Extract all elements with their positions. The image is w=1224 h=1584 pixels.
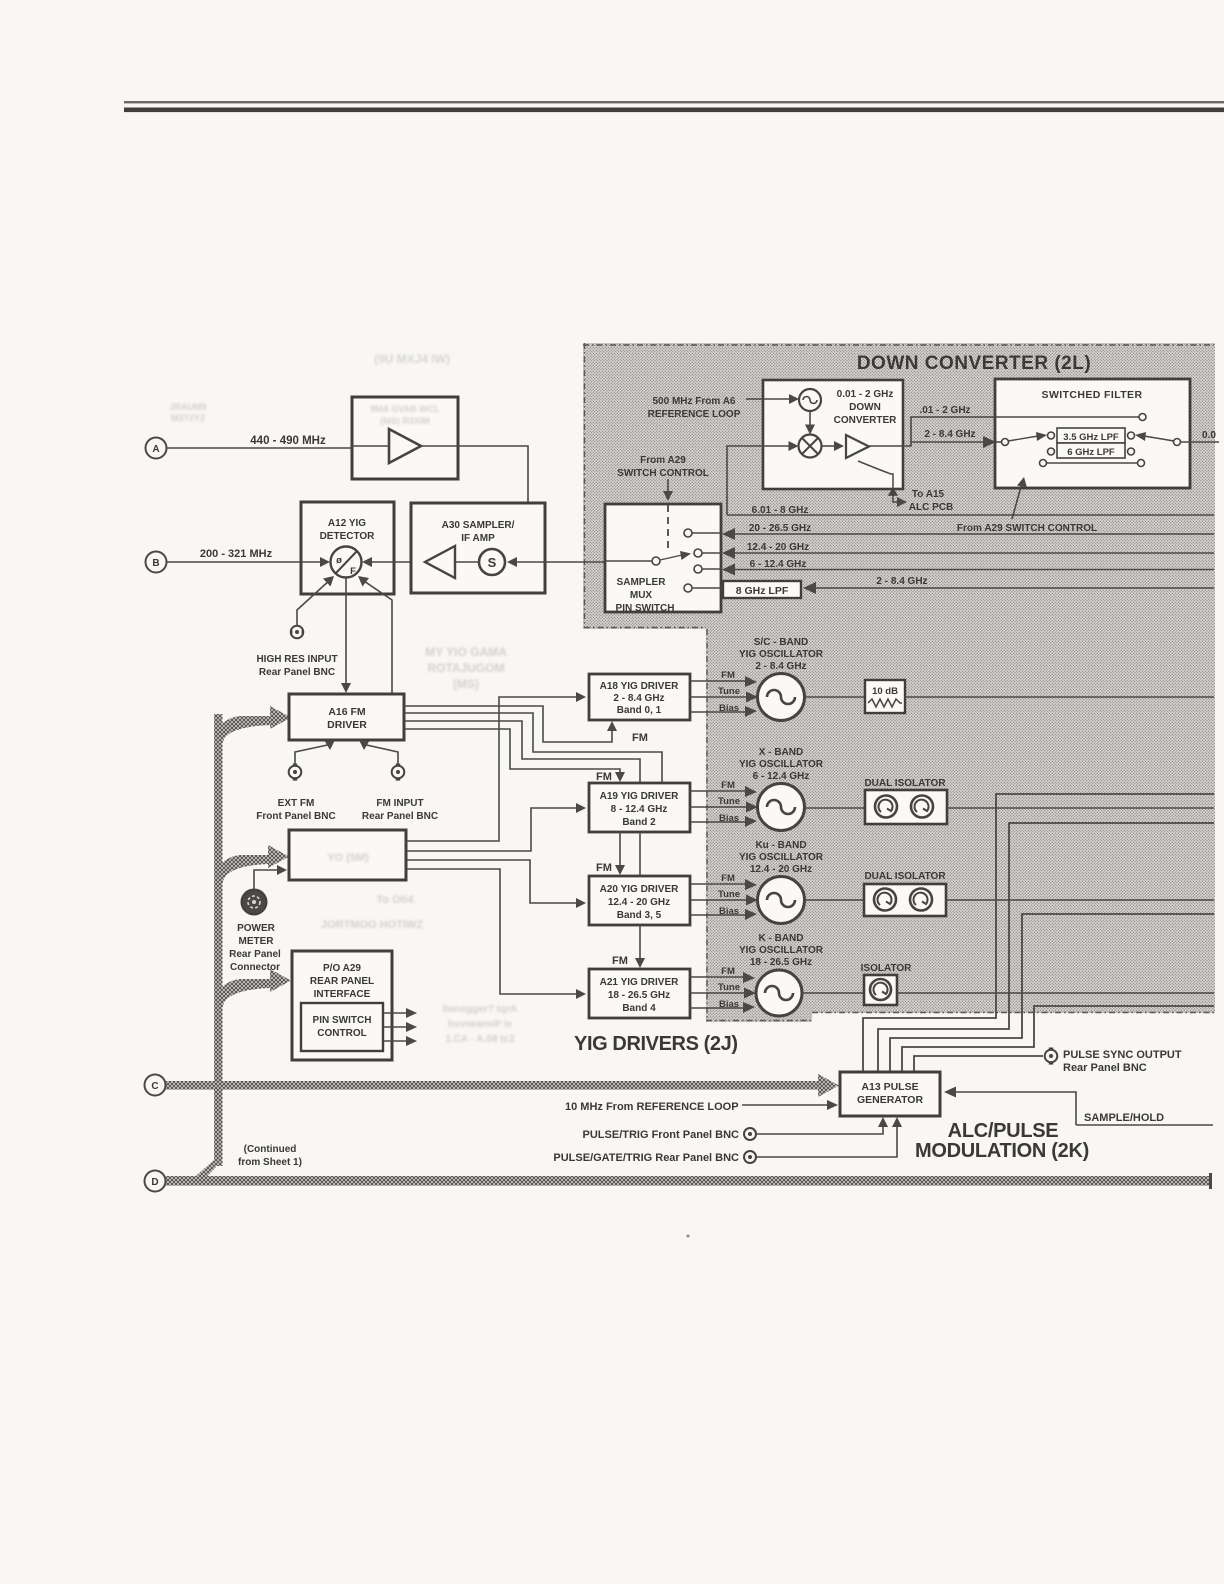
wire oscillator to dual isolator Ku: [805, 899, 865, 901]
svg-text:A13 PULSE: A13 PULSE: [861, 1081, 918, 1093]
svg-text:MUX: MUX: [630, 590, 653, 601]
svg-text:YIG OSCILLATOR: YIG OSCILLATOR: [739, 649, 824, 660]
svg-text:P/O A29: P/O A29: [323, 963, 361, 974]
svg-text:DUAL ISOLATOR: DUAL ISOLATOR: [864, 871, 946, 882]
chain wire A20 to A21 FM with arrowhead: [639, 925, 641, 962]
svg-text:ROTAJUGOM: ROTAJUGOM: [427, 661, 504, 675]
YO driver interface box (ghost label): [289, 830, 406, 880]
svg-text:PULSE SYNC OUTPUT: PULSE SYNC OUTPUT: [1063, 1049, 1182, 1061]
vertical hatched bus band: [214, 714, 223, 1166]
A20 Tune wire to oscillator: [690, 889, 758, 906]
node B terminal circle: [146, 552, 167, 573]
svg-text:POWER: POWER: [237, 923, 276, 934]
top rule thick: [124, 108, 1224, 113]
wire oscillator to mixer: [809, 411, 811, 429]
wire FM-driver feedback to phase det: [361, 579, 392, 694]
svg-text:FM: FM: [721, 873, 735, 884]
wire oscillator to dual isolator: [805, 807, 866, 809]
svg-text:FM: FM: [596, 771, 612, 783]
pulse wire 4 from A13: [902, 1006, 1214, 1072]
svg-text:PULSE/GATE/TRIG Rear Panel BNC: PULSE/GATE/TRIG Rear Panel BNC: [553, 1152, 739, 1164]
svg-text:DRIVER: DRIVER: [327, 719, 367, 731]
wire FM INPUT into driver: [362, 744, 398, 765]
svg-text:Rear Panel: Rear Panel: [229, 949, 281, 960]
A18 Bias wire to oscillator: [690, 703, 757, 717]
row D end tick: [1209, 1173, 1212, 1189]
dual isolator box Ku band: [864, 884, 946, 916]
wire into amplifier: [352, 445, 389, 447]
svg-text:PIN SWITCH: PIN SWITCH: [313, 1015, 372, 1026]
svg-text:FM: FM: [612, 955, 628, 967]
isolator box K band: [864, 975, 897, 1005]
svg-text:PULSE/TRIG Front Panel BNC: PULSE/TRIG Front Panel BNC: [583, 1129, 740, 1141]
svg-text:From A29 SWITCH CONTROL: From A29 SWITCH CONTROL: [957, 523, 1097, 534]
wire stub into input contact: [995, 441, 1001, 443]
svg-text:JRAUM9: JRAUM9: [169, 402, 206, 412]
svg-text:200 - 321 MHz: 200 - 321 MHz: [200, 548, 273, 560]
wire S/C band output to sheet edge: [905, 696, 1214, 698]
wire 6.01 - 8 GHz: [727, 514, 1214, 516]
svg-text:Bias: Bias: [719, 906, 739, 917]
svg-text:A16 FM: A16 FM: [328, 706, 366, 718]
svg-text:MODULATION (2K): MODULATION (2K): [915, 1140, 1089, 1162]
wire Ku band output to sheet edge: [946, 899, 1214, 901]
top rule thin: [124, 101, 1224, 103]
svg-text:18 - 26.5 GHz: 18 - 26.5 GHz: [750, 957, 812, 968]
svg-text:MY YIO GAMA: MY YIO GAMA: [425, 645, 507, 659]
wire from sampler mux into S with arrowhead: [513, 561, 545, 563]
svg-text:(Continued: (Continued: [244, 1144, 297, 1155]
arrowhead up into phase det left: [323, 576, 334, 587]
input switch arm: [1008, 436, 1038, 441]
sample/hold wire horizontal: [1076, 1124, 1213, 1126]
wire row B 200-321 MHz: [167, 561, 302, 563]
8 GHz LPF box: [723, 581, 801, 598]
svg-text:DOWN CONVERTER (2L): DOWN CONVERTER (2L): [857, 353, 1091, 374]
svg-text:FM: FM: [721, 966, 735, 977]
svg-text:JORTMOO HOTIWZ: JORTMOO HOTIWZ: [321, 919, 423, 931]
FM INPUT BNC connector: [392, 764, 405, 781]
chain wire A19 to A20 FM with arrowhead: [619, 832, 621, 869]
svg-text:Tune: Tune: [718, 686, 740, 697]
A20 FM wire to oscillator: [690, 873, 757, 890]
svg-text:bensgger? tqrA: bensgger? tqrA: [443, 1004, 517, 1015]
svg-text:FM: FM: [721, 670, 735, 681]
A21 YIG driver box: [589, 969, 690, 1018]
wire 6 - 12.4 GHz with arrowhead into mux: [734, 569, 1214, 571]
svg-text:METER: METER: [239, 936, 275, 947]
A20 Bias wire to oscillator: [690, 906, 757, 920]
svg-text:SWITCH CONTROL: SWITCH CONTROL: [617, 468, 709, 479]
svg-text:Bias: Bias: [719, 999, 739, 1010]
arrow from A29 control into switched filter: [1012, 483, 1022, 519]
output switch arm: [1144, 436, 1174, 441]
6 GHz LPF box: [1057, 443, 1125, 458]
switched filter input contact: [1002, 439, 1009, 446]
wire X band output to sheet edge: [947, 807, 1214, 809]
svg-text:SAMPLE/HOLD: SAMPLE/HOLD: [1084, 1112, 1164, 1124]
hatched bus row D: [163, 1176, 1210, 1186]
svg-text:from Sheet 1): from Sheet 1): [238, 1157, 302, 1168]
node D terminal circle: [145, 1171, 166, 1192]
svg-text:2 - 8.4 GHz: 2 - 8.4 GHz: [924, 429, 975, 440]
svg-text:CONTROL: CONTROL: [317, 1028, 366, 1039]
dash-dot border of shaded regions: [583, 343, 1214, 1021]
wire S to IF amp: [455, 561, 479, 563]
mux contact 6-12.4: [694, 565, 702, 573]
sample/hold wire into A13 with arrowhead: [955, 1092, 1076, 1125]
svg-text:EXT FM: EXT FM: [278, 798, 315, 809]
svg-text:hsvneanoP ie: hsvneanoP ie: [448, 1019, 513, 1030]
to A15 ALC PCB branch with detector diode: [858, 461, 893, 497]
contact .01-2 GHz path: [1140, 414, 1147, 421]
svg-text:FM: FM: [632, 732, 648, 744]
svg-text:2 - 8.4 GHz: 2 - 8.4 GHz: [755, 661, 806, 672]
LPF side contacts: [1048, 448, 1055, 455]
svg-text:To A15: To A15: [912, 489, 945, 500]
wire .01-2 GHz bypass across switched filter: [995, 416, 1139, 418]
10 dB attenuator: [865, 680, 905, 713]
hatched bus arrow into YO driver interface box: [214, 845, 289, 884]
wire FM driver out L1 to A18 FM: [404, 706, 612, 742]
svg-text:YIG OSCILLATOR: YIG OSCILLATOR: [739, 759, 824, 770]
svg-text:YO (5M): YO (5M): [327, 852, 369, 864]
hatched bus arrow into P/O A29 box: [214, 969, 291, 1008]
svg-text:12.4 - 20 GHz: 12.4 - 20 GHz: [750, 864, 812, 875]
svg-text:A18 YIG DRIVER: A18 YIG DRIVER: [600, 681, 680, 692]
svg-text:(9U MXJ4 IW): (9U MXJ4 IW): [374, 352, 450, 366]
wire pulse/gate/trig into A13 bottom: [756, 1123, 897, 1157]
svg-text:0.0: 0.0: [1202, 430, 1216, 441]
svg-text:6 GHz LPF: 6 GHz LPF: [1067, 447, 1115, 458]
svg-text:PIN SWITCH: PIN SWITCH: [616, 603, 675, 614]
pin switch control output arrows: [383, 1008, 417, 1018]
svg-text:ALC PCB: ALC PCB: [909, 502, 953, 513]
svg-text:Tune: Tune: [718, 889, 740, 900]
svg-text:YIG OSCILLATOR: YIG OSCILLATOR: [739, 945, 824, 956]
wire amp output to sampler: [421, 446, 528, 545]
S/C band YIG oscillator circle: [758, 674, 805, 721]
svg-text:Band 4: Band 4: [622, 1003, 656, 1014]
A18 FM wire to oscillator: [690, 670, 757, 687]
svg-text:12.4 - 20 GHz: 12.4 - 20 GHz: [608, 897, 670, 908]
EXT FM BNC connector: [289, 764, 302, 781]
svg-text:Rear Panel BNC: Rear Panel BNC: [1063, 1062, 1147, 1074]
wire FM driver out L2 to A19 top: [404, 713, 662, 783]
wire 10 MHz into A13: [742, 1104, 830, 1106]
wire from A30 amp into phase det with arrowhead: [370, 561, 424, 563]
svg-text:M3T2Y2: M3T2Y2: [171, 413, 205, 423]
sampler mux pin switch box: [605, 504, 721, 612]
svg-text:A: A: [152, 444, 159, 455]
arrowhead down into A16 FM driver: [341, 683, 351, 693]
svg-text:Bias: Bias: [719, 813, 739, 824]
svg-text:HIGH RES INPUT: HIGH RES INPUT: [256, 654, 337, 665]
0.01-2 GHz down converter box: [763, 380, 903, 489]
wire FM driver out L4 to A19 FM with arrowhead: [404, 729, 620, 776]
switched filter output wire: [1181, 441, 1220, 443]
wire FM driver out L3 to A19 top: [404, 721, 640, 783]
mux contact 8 GHz: [684, 584, 692, 592]
svg-text:(MS): (MS): [453, 677, 479, 691]
svg-text:YIG DRIVERS (2J): YIG DRIVERS (2J): [574, 1033, 738, 1055]
svg-text:440 - 490 MHz: 440 - 490 MHz: [250, 435, 326, 447]
A12 YIG detector box: [301, 502, 394, 594]
Ku band YIG oscillator circle: [758, 877, 805, 924]
wire 2 - 8.4 GHz into 8 GHz LPF: [815, 587, 1214, 589]
svg-text:0.01 - 2 GHz: 0.01 - 2 GHz: [837, 389, 894, 400]
wire pulse/trig into A13 bottom: [756, 1123, 883, 1134]
A21 Bias wire to oscillator: [690, 999, 755, 1013]
A20 YIG driver box: [589, 876, 690, 925]
svg-text:To Oti4: To Oti4: [376, 894, 414, 906]
svg-text:Band 3, 5: Band 3, 5: [617, 910, 662, 921]
svg-text:9MA GVAB WCL: 9MA GVAB WCL: [370, 404, 440, 414]
A13 pulse generator box: [840, 1072, 940, 1116]
svg-text:A21 YIG DRIVER: A21 YIG DRIVER: [600, 977, 680, 988]
phase/frequency detector circle in A12: [331, 547, 362, 578]
svg-text:Rear Panel BNC: Rear Panel BNC: [362, 811, 438, 822]
svg-text:DETECTOR: DETECTOR: [320, 531, 376, 542]
arrowhead into sampler S: [503, 539, 513, 550]
switched filter box: [995, 379, 1190, 488]
wire oscillator to isolator K: [802, 992, 864, 994]
svg-text:DOWN: DOWN: [849, 402, 881, 413]
shaded region: DOWN CONVERTER (2L) + YIG oscillator area: [583, 343, 1215, 1022]
pin switch control inner box: [301, 1003, 383, 1051]
svg-text:REFERENCE LOOP: REFERENCE LOOP: [648, 409, 741, 420]
wire 12.4 - 20 GHz with arrowhead into mux: [734, 552, 1214, 554]
svg-text:B: B: [152, 558, 159, 569]
svg-text:A19 YIG DRIVER: A19 YIG DRIVER: [600, 791, 680, 802]
high res input BNC connector: [290, 626, 304, 639]
svg-text:Front Panel BNC: Front Panel BNC: [256, 811, 335, 822]
svg-text:A30 SAMPLER/: A30 SAMPLER/: [442, 520, 515, 531]
svg-text:Bias: Bias: [719, 703, 739, 714]
svg-text:ISOLATOR: ISOLATOR: [861, 963, 913, 974]
svg-text:SAMPLER: SAMPLER: [617, 577, 667, 588]
A19 YIG driver box: [589, 783, 690, 832]
svg-text:6 - 12.4 GHz: 6 - 12.4 GHz: [750, 559, 807, 570]
local oscillator circle: [799, 389, 821, 411]
svg-text:GENERATOR: GENERATOR: [857, 1094, 924, 1106]
IF amp triangle in down converter: [846, 435, 869, 458]
svg-text:2 - 8.4 GHz: 2 - 8.4 GHz: [613, 693, 664, 704]
wire interface out4 to A21 driver: [406, 869, 579, 994]
A18 YIG driver box: [589, 674, 690, 720]
svg-text:6.01 - 8 GHz: 6.01 - 8 GHz: [752, 505, 809, 516]
X band YIG oscillator circle: [758, 784, 805, 831]
A16 FM driver box: [289, 694, 404, 740]
svg-text:.01 - 2 GHz: .01 - 2 GHz: [919, 405, 970, 416]
svg-text:8 - 12.4 GHz: 8 - 12.4 GHz: [611, 804, 668, 815]
wire B into phase det with arrowhead: [301, 561, 322, 563]
dashed control wire down into sampler mux: [667, 479, 669, 492]
mux common contact: [652, 557, 660, 565]
svg-text:ø: ø: [336, 555, 342, 566]
svg-text:FM: FM: [721, 780, 735, 791]
pulse/trig front panel BNC connector: [744, 1128, 756, 1140]
A19 Tune wire to oscillator: [690, 796, 758, 813]
wire high-res input to phase det: [297, 579, 331, 625]
stray mark: [687, 1235, 690, 1238]
dashed control wire inside sampler mux: [667, 505, 669, 549]
svg-text:S: S: [488, 555, 497, 570]
power meter connector: [242, 890, 267, 915]
svg-text:INTERFACE: INTERFACE: [314, 989, 371, 1000]
A18 Tune wire to oscillator: [690, 686, 758, 703]
svg-text:D: D: [151, 1177, 158, 1188]
wire 500 MHz into oscillator: [746, 398, 792, 400]
svg-text:Tune: Tune: [718, 796, 740, 807]
svg-text:C: C: [151, 1081, 158, 1092]
svg-text:10 dB: 10 dB: [872, 686, 898, 697]
svg-text:K - BAND: K - BAND: [759, 933, 804, 944]
wire EXT FM into driver: [295, 744, 332, 765]
svg-text:6 - 12.4 GHz: 6 - 12.4 GHz: [753, 771, 810, 782]
svg-text:FM INPUT: FM INPUT: [376, 798, 423, 809]
A21 FM wire to oscillator: [690, 966, 755, 983]
wire interface out2 to A19 driver: [406, 808, 579, 851]
node C terminal circle: [145, 1075, 166, 1096]
svg-text:Tune: Tune: [718, 982, 740, 993]
pulse sync wire from A13 to rear panel BNC: [914, 1056, 1043, 1072]
pulse/gate/trig rear panel BNC connector: [744, 1151, 756, 1163]
svg-text:X - BAND: X - BAND: [759, 747, 803, 758]
svg-text:CONVERTER: CONVERTER: [834, 415, 898, 426]
svg-text:Band 2: Band 2: [622, 817, 656, 828]
arrowhead up into phase det right: [358, 576, 369, 587]
svg-text:500 MHz From A6: 500 MHz From A6: [653, 396, 736, 407]
A19 Bias wire to oscillator: [690, 813, 757, 827]
wire power meter to interface box: [254, 870, 279, 889]
svg-text:S/C - BAND: S/C - BAND: [754, 637, 808, 648]
3.5 GHz LPF box: [1057, 428, 1125, 443]
wire interface out3 to A20 driver: [406, 860, 579, 903]
P/O A29 rear panel interface box: [292, 951, 392, 1060]
A19 FM wire to oscillator: [690, 780, 757, 797]
svg-text:Rear Panel BNC: Rear Panel BNC: [259, 667, 335, 678]
dual isolator box X band: [865, 790, 947, 824]
IF amp triangle pointing left: [425, 546, 455, 578]
wire interface out1 to A18 driver: [406, 697, 579, 841]
hatched bus bend into row D: [188, 1160, 223, 1183]
svg-text:1.CA - A.08 tc2: 1.CA - A.08 tc2: [445, 1034, 515, 1045]
svg-text:FM: FM: [596, 862, 612, 874]
svg-text:YIG OSCILLATOR: YIG OSCILLATOR: [739, 852, 824, 863]
svg-text:12.4 - 20 GHz: 12.4 - 20 GHz: [747, 542, 809, 553]
svg-text:From A29: From A29: [640, 455, 686, 466]
svg-text:20 - 26.5 GHz: 20 - 26.5 GHz: [749, 523, 811, 534]
amplifier box (A5 low band amp): [352, 397, 458, 479]
svg-text:(MS) R3XIM: (MS) R3XIM: [380, 416, 430, 426]
K band YIG oscillator circle: [756, 970, 802, 1016]
pulse wire 1 from A13 to X band modulator: [863, 794, 1214, 1072]
wire phase det F output down to A16 FM driver: [345, 578, 347, 688]
wire row A 440-490 MHz: [167, 447, 353, 449]
wire K band output to sheet edge: [897, 992, 1214, 994]
svg-text:F: F: [350, 566, 356, 577]
hatched bus arrowhead into A13: [818, 1074, 839, 1097]
pulse sync output BNC connector: [1045, 1048, 1058, 1065]
A21 Tune wire to oscillator: [690, 982, 756, 999]
hatched bus row C: [163, 1081, 818, 1090]
svg-text:18 - 26.5 GHz: 18 - 26.5 GHz: [608, 990, 670, 1001]
hatched bus arrow into A16 FM driver: [214, 706, 291, 744]
spare bypass contacts bottom: [1040, 460, 1047, 467]
mux contact 12.4-20: [694, 549, 702, 557]
svg-text:DUAL ISOLATOR: DUAL ISOLATOR: [864, 778, 946, 789]
svg-text:SWITCHED FILTER: SWITCHED FILTER: [1042, 389, 1143, 401]
svg-text:Band 0, 1: Band 0, 1: [617, 705, 662, 716]
wire sampler mux to A30 across shade: [545, 561, 605, 563]
node A terminal circle: [146, 438, 167, 459]
A30 sampler/IF amp box: [411, 503, 545, 593]
svg-text:IF AMP: IF AMP: [461, 533, 495, 544]
svg-text:A20 YIG DRIVER: A20 YIG DRIVER: [600, 884, 680, 895]
svg-text:3.5 GHz LPF: 3.5 GHz LPF: [1063, 432, 1119, 443]
pulse wire 2 from A13: [878, 823, 1214, 1072]
svg-text:8 GHz LPF: 8 GHz LPF: [736, 585, 789, 597]
wire oscillator to 10 dB pad: [805, 696, 866, 698]
chain wire A19 to A20 plain: [639, 832, 641, 876]
wire converter output: [869, 417, 1139, 446]
wire 2-8.4 GHz to switched filter: [911, 441, 993, 443]
mux contact 20-26.5: [684, 529, 692, 537]
svg-text:10 MHz From REFERENCE LOOP: 10 MHz From REFERENCE LOOP: [565, 1101, 739, 1113]
svg-text:A12 YIG: A12 YIG: [328, 518, 366, 529]
mux switch arm with arrowhead: [660, 555, 682, 560]
svg-text:2 - 8.4 GHz: 2 - 8.4 GHz: [876, 576, 927, 587]
svg-text:Ku - BAND: Ku - BAND: [755, 840, 806, 851]
wire 6.01-8 GHz into mixer: [727, 446, 794, 515]
amplifier triangle: [389, 429, 421, 463]
sampler S circle: [479, 549, 505, 575]
svg-text:ALC/PULSE: ALC/PULSE: [948, 1120, 1059, 1142]
wire 20 - 26.5 GHz with arrowhead into mux: [734, 533, 1214, 535]
pulse wire 3 from A13: [890, 914, 1214, 1072]
mixer circle: [799, 435, 822, 458]
svg-text:REAR PANEL: REAR PANEL: [310, 976, 374, 987]
